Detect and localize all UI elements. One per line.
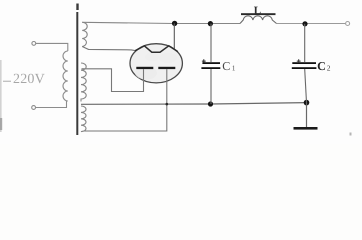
- terminal input top: [32, 42, 36, 46]
- node C1 to rail: [208, 101, 213, 106]
- svg-text:2: 2: [327, 64, 331, 73]
- node C1 to B+ wire: [208, 21, 213, 26]
- wire B+ after choke: [277, 23, 346, 25]
- ground: [294, 103, 318, 130]
- svg-text:C: C: [222, 59, 230, 73]
- filament (inside tube): [135, 46, 178, 52]
- wire left anode to HV winding top (step wire): [82, 69, 144, 92]
- scan speck bottom right: [350, 133, 352, 136]
- node anode wire crossing rail: [166, 103, 169, 106]
- svg-text:1: 1: [232, 64, 236, 73]
- filament winding secondary: [82, 22, 87, 46]
- anode right plate: [158, 67, 175, 69]
- svg-text:C: C: [317, 59, 326, 73]
- capacitor C2: [292, 24, 317, 103]
- scan artifact left edge: [0, 60, 11, 132]
- wire filament right lead (vertical into tube): [173, 23, 175, 48]
- svg-text:220V: 220V: [13, 72, 45, 87]
- polarity + of C2: [297, 59, 301, 63]
- HV secondary winding upper half: [81, 63, 86, 102]
- node junction at plate-top wire: [172, 21, 177, 26]
- terminal input bottom: [32, 106, 36, 110]
- node C2 to B+ wire: [302, 21, 307, 26]
- svg-text:L: L: [254, 5, 261, 17]
- wire center tap rail (ground rail): [81, 103, 307, 105]
- tube interior shading: [135, 53, 177, 80]
- polarity + of C1: [202, 59, 206, 63]
- transformer core: [76, 4, 78, 136]
- wire filament left lead (winding to tube): [82, 47, 135, 51]
- wire primary top lead: [36, 43, 68, 51]
- rectifier tube V envelope: [130, 44, 182, 83]
- wire primary bottom lead: [36, 101, 67, 108]
- capacitor C1: [201, 24, 220, 104]
- HV secondary winding lower half: [81, 106, 86, 132]
- wire right anode to HV winding bottom: [84, 69, 167, 131]
- terminal output: [346, 22, 350, 26]
- choke L winding: [240, 16, 277, 24]
- anode left plate: [136, 67, 153, 69]
- node C2/ground to rail: [304, 100, 310, 106]
- primary winding: [63, 51, 68, 101]
- choke L core bar: [241, 13, 276, 15]
- wire B+ top (filament winding top to choke): [82, 22, 240, 23]
